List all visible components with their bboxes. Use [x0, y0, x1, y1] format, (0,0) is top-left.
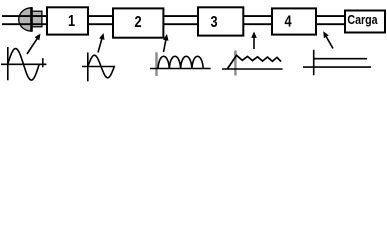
svg-text:1: 1 [68, 13, 75, 31]
svg-text:2: 2 [134, 14, 141, 32]
svg-text:3: 3 [210, 14, 217, 32]
svg-text:Carga: Carga [347, 12, 378, 27]
svg-text:4: 4 [284, 13, 291, 31]
